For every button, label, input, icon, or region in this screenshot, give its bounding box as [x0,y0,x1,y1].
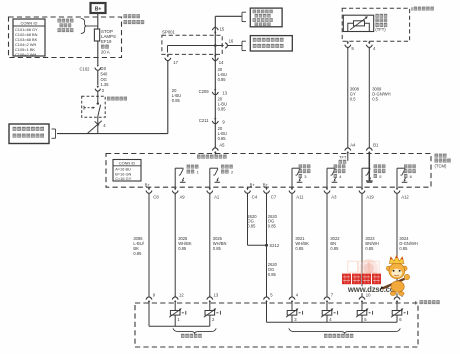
pin 17 of SP001 [167,54,169,57]
note 线路系统中的配电示意图 [58,19,61,23]
driver pressure control solenoid 4 [326,168,328,187]
bracket to ABS reference box [242,11,246,13]
pin 12 of automatic transmission [174,296,176,297]
svg-text:S212: S212 [269,243,279,248]
dzsc watermark mascot [380,255,409,295]
fuse STOP LAMPS EF19 20A [94,29,99,41]
pin 3 of stop lamp switch [97,86,100,88]
label 变速器控制模块 (TCM) [435,154,439,158]
svg-text:C211: C211 [199,118,209,123]
driver shift solenoid 1 换档电磁阀1 [174,168,176,187]
wire brake feed main vertical [214,16,216,147]
svg-text:B+: B+ [263,182,269,187]
wire A19 3023 BN/WH [361,194,363,297]
svg-text:A5: A5 [219,142,225,147]
pin 15 [214,26,216,27]
transmission fluid temperature sensor box [343,15,373,31]
wire to shift solenoid 2 [209,304,211,311]
pin 16 branch to exterior lights [215,45,222,47]
pin A11 of TCM [291,187,293,190]
pin 4 of automatic transmission [291,296,293,297]
switch pin 4 contact arm [87,121,102,134]
svg-text:0.85: 0.85 [295,246,304,251]
driver pressure control solenoid 6 [396,168,398,187]
wire to shift solenoid 1 [174,304,176,311]
pin C8 of TCM [148,187,150,190]
bracket to reference box [52,128,56,130]
bracket to exterior lamps reference box [242,40,246,42]
svg-text:17: 17 [173,60,178,65]
svg-text:20 A: 20 A [101,49,110,54]
shift solenoid 1 [170,311,180,316]
svg-text:OG: OG [101,77,107,82]
wire to ABS reference [215,15,242,17]
wire SP001 internal splice [168,45,216,47]
pin C7 of TCM [266,187,268,190]
wire to pressure solenoid 6 [396,304,398,311]
svg-text:13: 13 [222,90,227,95]
label 停车灯开关 [107,97,110,101]
svg-text:16: 16 [229,39,234,44]
TCM CONN ID table [113,160,141,182]
switch actuator dashed link [83,106,85,110]
shift solenoid 2 [205,311,215,316]
wire fuse to C102 [97,41,99,65]
label fuse block 熔丝盒-发动机舱内 [124,14,128,18]
svg-text:SP001: SP001 [162,30,176,35]
svg-text:0.85: 0.85 [178,246,187,251]
svg-text:0.85: 0.85 [268,272,277,277]
svg-text:A12: A12 [401,194,409,199]
svg-text:0.85: 0.85 [213,246,222,251]
svg-text:13: 13 [214,293,219,298]
pin 13 of automatic transmission [209,296,211,297]
wire to pressure solenoid 5 [361,304,363,311]
wire C8 3086 L-BU/BK [148,194,150,297]
pin A1 of TCM [209,187,211,190]
wire shift solenoid return [148,304,150,327]
wire C7 2620 OG [266,194,268,297]
svg-text:0.85: 0.85 [399,246,408,251]
pin A12 of TCM [396,187,398,190]
pin 14 of SP001 [214,54,216,57]
wire B+ to fuse [97,13,99,29]
driver shift solenoid 2 换档电磁阀2 [209,168,211,187]
TCM internal TFT signal stub [347,154,349,161]
transmission control module TCM dashed box [106,154,431,188]
brace pressure solenoids 压力控制电磁阀 [289,328,401,333]
wire to pressure solenoid 4 [326,304,328,311]
svg-text:C106=2 WH: C106=2 WH [15,52,36,57]
stop lamp switch contacts [97,96,99,102]
svg-text:0.85: 0.85 [133,251,142,256]
pin A3 of TCM [326,187,328,190]
fuse block dashed box (engine compartment) [9,17,122,58]
connector C209 pin 13 [214,89,216,91]
brace to power distribution note [81,19,87,34]
wire stop lamp feed horizontal [57,133,168,135]
svg-text:CONN ID: CONN ID [119,160,136,165]
svg-text:C209: C209 [199,89,210,94]
svg-text:C8: C8 [153,194,159,199]
svg-text:TFT: TFT [339,155,347,160]
svg-text:0.85: 0.85 [218,77,227,82]
pin 5 of automatic transmission [266,296,268,297]
pin C4 of TCM [247,187,249,190]
TFT sensor pin 4 [368,41,370,44]
stop lamp switch dashed box [82,96,106,117]
wire TFT signal 3008 GY [347,48,349,147]
svg-text:0.5: 0.5 [350,97,356,102]
wire switch to pin 4 [97,116,99,133]
svg-text:0.85: 0.85 [365,246,374,251]
label 自动变速器 (bottom right) [415,301,417,305]
svg-text:(TFT): (TFT) [375,27,386,32]
wire pressure solenoid return [266,304,268,323]
wire A11 3021 WH/BK [291,194,293,297]
label 变速器油温度传感器 (TFT) [375,14,378,18]
svg-text:0.85: 0.85 [172,98,181,103]
thermistor symbol [354,21,365,26]
wire TFT low ref 3009 D-GN/WH [368,48,370,147]
svg-text:A4: A4 [350,142,356,147]
dzsc watermark 维库一下 red text [342,274,351,285]
automatic transmission dashed box (solenoids) [135,303,418,347]
svg-text:C4: C4 [252,194,258,199]
brace shift solenoids 换档电磁阀 [173,328,216,333]
svg-text:A11: A11 [296,194,304,199]
pressure control solenoid 3 [287,311,297,316]
svg-text:C102: C102 [79,67,90,72]
svg-text:12: 12 [179,293,184,298]
svg-text:1.35: 1.35 [101,82,110,87]
pin 1 of automatic transmission [396,296,398,297]
svg-text:B+: B+ [95,6,102,12]
reference box 防抱死制动系统示意图 [250,8,282,27]
pressure control solenoid 4 [322,311,332,316]
svg-text:0.85: 0.85 [218,136,227,141]
svg-text:0.85: 0.85 [247,224,256,229]
reference box 照明系统 车外灯示意图 [250,36,292,51]
svg-text:(TCM): (TCM) [435,164,447,169]
svg-text:0.85: 0.85 [330,246,339,251]
driver pressure control solenoid 3 [291,168,293,187]
pressure control solenoid 6 [392,311,402,316]
battery feed B+ terminal [91,3,106,13]
svg-text:CONN ID: CONN ID [21,21,38,26]
wire C102 to stop lamp switch [97,71,99,85]
label 熔断 20 A [101,45,105,49]
TCM internal TFT low reference [368,154,370,181]
svg-text:0.5: 0.5 [372,97,378,102]
pin 7 of automatic transmission [326,296,328,297]
connector C211 pin 9 [214,118,216,120]
pin 9 of automatic transmission [148,296,150,297]
svg-text:B+: B+ [145,182,151,187]
driver pressure control solenoid 5 [361,168,363,187]
svg-text:15: 15 [220,27,225,32]
pressure control solenoid 5 [357,311,367,316]
svg-text:C=16 GY: C=16 GY [115,176,132,181]
wire switch output up to SP001 [167,61,169,133]
svg-text:A1: A1 [214,194,220,199]
pin A9 of TCM [174,187,176,190]
wire A3 3022 BN [326,194,328,297]
pin 10 of automatic transmission [361,296,363,297]
svg-text:DS: DS [101,66,107,71]
svg-text:A19: A19 [366,194,374,199]
svg-text:C7: C7 [271,194,277,199]
dzsc watermark ghost badge [360,259,379,278]
wire A12 3024 D-GN/WH [396,194,398,297]
svg-text:EF19: EF19 [101,39,112,44]
svg-text:A9: A9 [180,194,186,199]
connector C102 [97,65,99,67]
wire A9 3025 WH/BK [174,194,176,297]
pin A19 of TCM [361,187,363,190]
svg-text:14: 14 [219,60,224,65]
connector ID table CONN ID C101-C106 [13,19,45,56]
svg-text:540: 540 [101,72,109,77]
wire A1 3025 WH/BN [209,194,211,297]
svg-text:B1: B1 [373,142,379,147]
svg-text:0.85: 0.85 [268,224,277,229]
label 停车灯供电电压 [197,155,201,159]
wire C4 2620 OG [247,194,249,245]
label 自动变速器 (top right) [411,7,413,10]
svg-text:0.85: 0.85 [218,107,227,112]
wire to pressure solenoid 3 [291,304,293,311]
splice S212 [265,244,268,247]
automatic transmission dashed box (TFT) [342,8,409,41]
svg-text:A3: A3 [331,194,337,199]
TFT sensor pin 9 [347,41,349,44]
reference box 照明系统 车外灯示意图 [9,124,49,144]
svg-text:B+: B+ [250,182,256,187]
